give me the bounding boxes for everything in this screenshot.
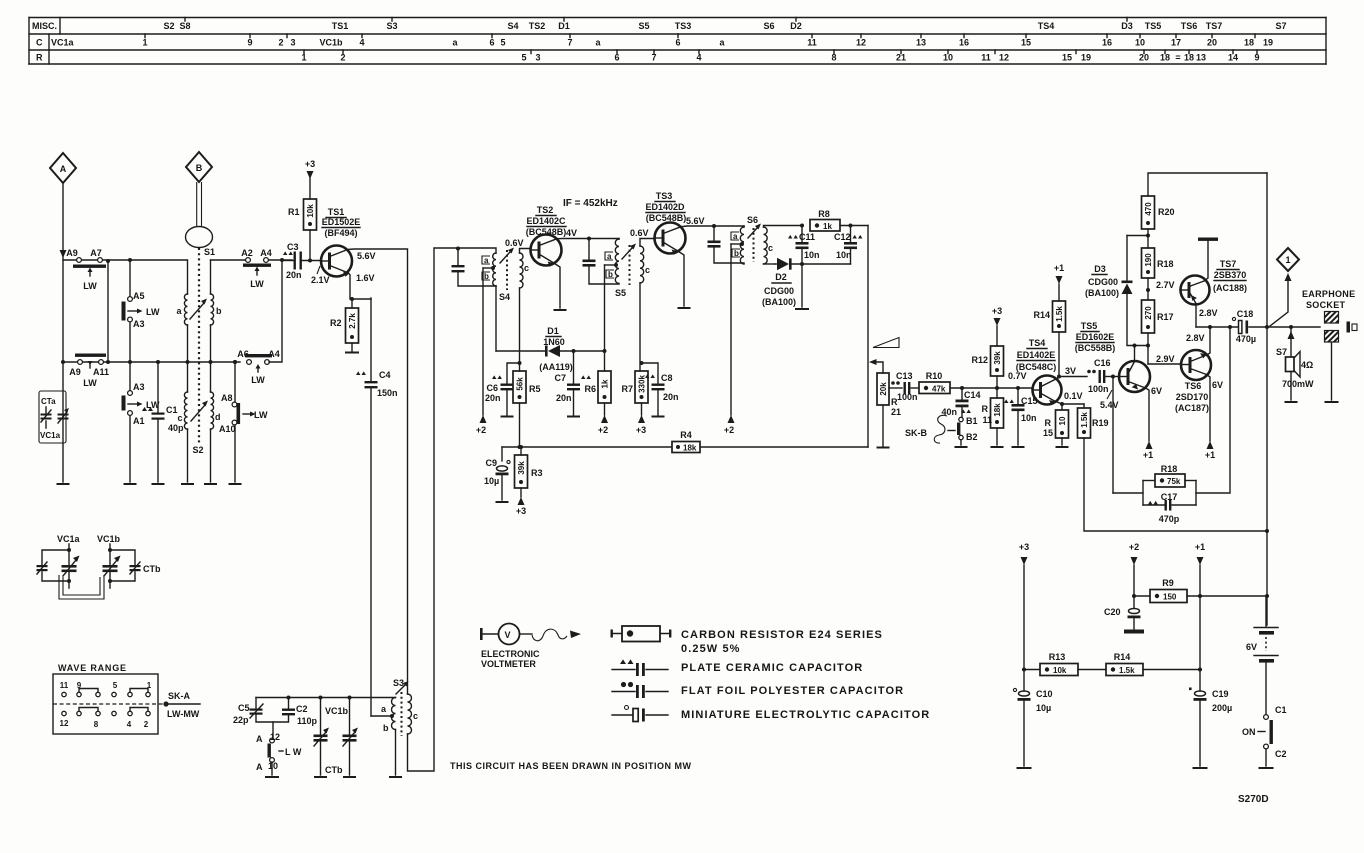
resistor R11 18k xyxy=(982,388,1004,447)
on/off switch C1/C2 xyxy=(1242,705,1287,768)
svg-text:A3: A3 xyxy=(133,382,145,392)
ferrite rod core (dotted) xyxy=(198,248,200,443)
svg-text:C2: C2 xyxy=(296,704,308,714)
node junction C3/A4 xyxy=(280,258,284,262)
svg-text:A7: A7 xyxy=(90,248,102,258)
svg-text:12: 12 xyxy=(999,53,1009,63)
+1 feed R14 xyxy=(1054,263,1064,301)
MIXER TS1 + OSC xyxy=(233,159,692,777)
svg-text:C19: C19 xyxy=(1212,689,1229,699)
S5 winding c xyxy=(640,246,644,283)
svg-text:TS6: TS6 xyxy=(1185,381,1202,391)
legend plate ceramic capacitor xyxy=(612,659,863,676)
S6 tuning arrow xyxy=(748,228,757,238)
svg-text:LW: LW xyxy=(254,410,268,420)
svg-text:B2: B2 xyxy=(966,432,978,442)
svg-text:a: a xyxy=(607,252,612,261)
ground under antenna A line xyxy=(58,483,69,485)
svg-text:21: 21 xyxy=(891,407,901,417)
svg-text:VOLTMETER: VOLTMETER xyxy=(481,659,536,669)
svg-text:2.8V: 2.8V xyxy=(1186,333,1205,343)
right spine wire xyxy=(1266,173,1268,625)
svg-text:15: 15 xyxy=(1043,428,1053,438)
svg-text:15: 15 xyxy=(1062,53,1072,63)
svg-text:270: 270 xyxy=(1144,306,1153,320)
node 1 diamond xyxy=(1270,248,1299,326)
svg-text:b: b xyxy=(484,272,489,281)
TS6 collector to +1 xyxy=(1205,375,1215,461)
svg-text:5.6V: 5.6V xyxy=(686,216,705,226)
TS5 base node feedback drop xyxy=(1111,375,1115,379)
svg-text:R18: R18 xyxy=(1157,259,1174,269)
svg-text:S7: S7 xyxy=(1275,21,1286,31)
TS5 emitter to +1 xyxy=(1143,388,1153,460)
svg-text:(BA100): (BA100) xyxy=(762,297,796,307)
svg-text:VC1b: VC1b xyxy=(325,706,349,716)
capacitor C15 10n xyxy=(1004,386,1038,447)
contacts top row xyxy=(62,689,150,697)
svg-text:R: R xyxy=(1045,418,1052,428)
svg-text:19: 19 xyxy=(1081,53,1091,63)
svg-text:c: c xyxy=(177,413,182,423)
svg-text:10k: 10k xyxy=(1053,666,1067,675)
capacitor C20 xyxy=(1104,607,1144,634)
svg-text:(AA119): (AA119) xyxy=(539,362,573,372)
svg-text:2SB370: 2SB370 xyxy=(1214,270,1247,280)
svg-text:6V: 6V xyxy=(1246,642,1257,652)
svg-text:ED1402E: ED1402E xyxy=(1017,350,1056,360)
emitter wire xyxy=(349,273,372,299)
svg-text:11: 11 xyxy=(982,415,992,425)
S6 winding ab xyxy=(743,226,745,227)
svg-text:CTb: CTb xyxy=(143,564,161,574)
svg-text:R19: R19 xyxy=(1092,418,1109,428)
S6 winding c xyxy=(764,227,768,264)
S4 core xyxy=(506,250,508,290)
svg-text:5: 5 xyxy=(113,681,118,690)
svg-text:2: 2 xyxy=(144,720,149,729)
coil b (MW) xyxy=(209,260,223,364)
resistor R10 47k xyxy=(919,371,950,394)
resistor R19 1.5k xyxy=(1078,404,1268,531)
battery 6V xyxy=(1246,596,1278,714)
wave range table xyxy=(53,663,200,734)
tuning arrow coils c/d xyxy=(191,405,205,421)
resistor R8 1k xyxy=(810,209,868,231)
svg-text:C14: C14 xyxy=(964,390,981,400)
TS7 collector to chassis bar xyxy=(1204,241,1208,281)
svg-text:A4: A4 xyxy=(268,349,280,359)
svg-text:470µ: 470µ xyxy=(1236,334,1256,344)
S4 tuning arrow xyxy=(500,252,510,263)
svg-text:FLAT FOIL POLYESTER CAPACITOR: FLAT FOIL POLYESTER CAPACITOR xyxy=(681,685,904,697)
capacitor C4 150n xyxy=(356,298,398,716)
svg-text:TS1: TS1 xyxy=(332,21,349,31)
svg-text:6V: 6V xyxy=(1212,380,1223,390)
svg-text:TS2: TS2 xyxy=(529,21,546,31)
svg-text:S1: S1 xyxy=(204,247,215,257)
svg-text:19: 19 xyxy=(1263,38,1273,48)
svg-text:+1: +1 xyxy=(1143,450,1153,460)
resistor R18 190 xyxy=(1142,248,1174,300)
svg-text:LW: LW xyxy=(83,378,97,388)
svg-text:S270D: S270D xyxy=(1238,794,1269,805)
svg-text:47k: 47k xyxy=(932,385,946,394)
svg-text:S5: S5 xyxy=(615,288,626,298)
svg-text:39k: 39k xyxy=(517,461,526,475)
svg-text:D1: D1 xyxy=(547,326,559,336)
ground under coil c xyxy=(182,483,193,485)
svg-text:+3: +3 xyxy=(1019,542,1029,552)
coil a (MW) xyxy=(176,260,189,364)
svg-text:R14: R14 xyxy=(1033,310,1050,320)
svg-text:C1: C1 xyxy=(1275,705,1287,715)
S6 resonant capacitor xyxy=(708,224,745,263)
svg-text:(BA100): (BA100) xyxy=(1085,288,1119,298)
svg-text:40p: 40p xyxy=(168,423,184,433)
switch A9/A7 xyxy=(66,248,106,291)
svg-text:C9: C9 xyxy=(485,458,497,468)
svg-text:15: 15 xyxy=(1021,38,1031,48)
svg-text:1: 1 xyxy=(142,38,147,48)
svg-text:a: a xyxy=(733,232,738,241)
voltage 2.1V xyxy=(317,266,320,274)
wire R8 node down to volume xyxy=(867,226,869,448)
svg-text:S6: S6 xyxy=(747,215,758,225)
svg-text:CDG00: CDG00 xyxy=(1088,277,1118,287)
TS6 emitter to output node xyxy=(1207,327,1211,355)
S3 tuning arrow xyxy=(396,685,405,694)
svg-text:D3: D3 xyxy=(1094,264,1106,274)
osc bus wire xyxy=(256,697,396,699)
resistor R13 10k xyxy=(1024,652,1106,676)
node B diamond xyxy=(186,152,212,182)
svg-text:+1: +1 xyxy=(1054,263,1064,273)
svg-text:S4: S4 xyxy=(499,292,510,302)
voltage 5.4V xyxy=(1107,390,1112,399)
base line to TS4 xyxy=(950,387,1033,389)
svg-text:R3: R3 xyxy=(531,468,543,478)
svg-text:470p: 470p xyxy=(1159,514,1180,524)
ground under C1 xyxy=(153,483,164,485)
svg-text:D2: D2 xyxy=(790,21,802,31)
svg-text:B: B xyxy=(196,163,203,173)
svg-text:10n: 10n xyxy=(1021,413,1037,423)
svg-text:TS7: TS7 xyxy=(1206,21,1223,31)
S5 winding ab xyxy=(618,238,620,241)
svg-text:20n: 20n xyxy=(663,392,679,402)
svg-text:+2: +2 xyxy=(724,425,734,435)
switch A5/A3 xyxy=(122,258,161,364)
svg-text:2.7k: 2.7k xyxy=(348,313,357,329)
svg-text:+3: +3 xyxy=(636,425,646,435)
node A diamond xyxy=(50,153,76,183)
svg-text:20n: 20n xyxy=(286,270,302,280)
svg-text:A10: A10 xyxy=(219,424,236,434)
variable capacitor VC1b xyxy=(314,696,349,778)
IF STAGES xyxy=(452,191,869,516)
transistor TS1 ED1502E (BF494) xyxy=(321,207,360,277)
diode D3 CDG00 (BA100) xyxy=(1085,236,1148,346)
svg-text:+2: +2 xyxy=(476,425,486,435)
svg-text:A: A xyxy=(60,164,67,174)
transistor TS7 2SB370 (AC188) xyxy=(1180,259,1247,305)
coil d (LW) xyxy=(211,362,221,482)
TS2 emitter to ground xyxy=(553,263,560,309)
svg-text:R: R xyxy=(36,53,43,63)
svg-text:c: c xyxy=(768,243,773,253)
output line with C18 xyxy=(1196,326,1238,328)
svg-text:A8: A8 xyxy=(221,393,233,403)
svg-text:LW: LW xyxy=(250,279,264,289)
+2 rail xyxy=(1129,542,1139,608)
svg-text:100n: 100n xyxy=(897,392,918,402)
feedback network R18/C17 xyxy=(1113,325,1232,524)
svg-text:(BC548C): (BC548C) xyxy=(1016,362,1057,372)
base line TS6 xyxy=(1148,363,1181,365)
svg-text:10µ: 10µ xyxy=(1036,703,1051,713)
svg-text:100n: 100n xyxy=(1088,384,1109,394)
transistor TS5 ED1602E (BC558B) xyxy=(1075,321,1150,392)
svg-text:TS1: TS1 xyxy=(328,207,345,217)
wiper arrow to R21 xyxy=(869,359,877,365)
TS3 emitter to ground xyxy=(677,251,684,307)
svg-text:C12: C12 xyxy=(834,232,851,242)
svg-text:S2: S2 xyxy=(163,21,174,31)
svg-text:R13: R13 xyxy=(1049,652,1066,662)
svg-text:ED1502E: ED1502E xyxy=(322,217,361,227)
TS4 emitter wires xyxy=(1055,401,1085,404)
IF transformer S6 xyxy=(731,215,800,264)
svg-text:TS6: TS6 xyxy=(1181,21,1198,31)
resistor R14 1.5k (supply) xyxy=(1106,652,1200,676)
arrow on antenna wire xyxy=(60,250,67,258)
table grid xyxy=(29,18,1326,65)
switch A9/A11 xyxy=(69,354,109,389)
wire top row y260 left xyxy=(63,259,187,261)
svg-text:R18: R18 xyxy=(1161,464,1178,474)
GANG + WAVE RANGE xyxy=(37,534,201,734)
svg-text:EARPHONE: EARPHONE xyxy=(1302,289,1355,299)
capacitor C6 20n xyxy=(485,361,522,417)
svg-text:3: 3 xyxy=(290,38,295,48)
svg-text:A5: A5 xyxy=(133,291,145,301)
svg-text:20: 20 xyxy=(1207,38,1217,48)
svg-text:TS3: TS3 xyxy=(656,191,673,201)
svg-text:56k: 56k xyxy=(516,377,525,391)
svg-text:R14: R14 xyxy=(1114,652,1131,662)
capacitor C11 10n xyxy=(788,224,820,310)
svg-text:C16: C16 xyxy=(1094,358,1111,368)
svg-text:R20: R20 xyxy=(1158,207,1175,217)
svg-text:6: 6 xyxy=(675,38,680,48)
resistor R4 18k xyxy=(502,430,868,453)
svg-text:1: 1 xyxy=(1285,255,1290,265)
svg-text:TS4: TS4 xyxy=(1038,21,1055,31)
R row entries xyxy=(301,53,1259,63)
svg-text:MISC.: MISC. xyxy=(32,21,57,31)
diode D2 CDG00 (BA100) xyxy=(762,258,851,307)
svg-text:R10: R10 xyxy=(926,371,943,381)
contact numbers bottom xyxy=(60,719,149,729)
svg-text:10n: 10n xyxy=(836,250,852,260)
gang capacitor VC1b section xyxy=(97,534,161,588)
svg-text:1.6V: 1.6V xyxy=(356,273,375,283)
+3 rail to R1 xyxy=(305,159,315,199)
transistor TS4 ED1402E (BC548C) xyxy=(1016,338,1062,405)
S3 winding a/b xyxy=(392,698,396,730)
svg-text:6V: 6V xyxy=(1151,386,1162,396)
capacitor C13 100n xyxy=(889,371,919,402)
svg-text:A11: A11 xyxy=(93,367,109,377)
osc transformer S3 xyxy=(371,248,458,777)
svg-text:+1: +1 xyxy=(1195,542,1205,552)
AUDIO DRIVER xyxy=(905,263,1267,531)
collector line to C16 xyxy=(1059,376,1087,378)
svg-text:R9: R9 xyxy=(1162,578,1174,588)
svg-text:L W: L W xyxy=(285,747,302,757)
capacitor C7 20n xyxy=(554,349,590,417)
IF transformer S5 xyxy=(605,239,655,372)
S4 winding ab xyxy=(493,253,496,286)
earphone switch SK-B contacts B1/B2 xyxy=(905,415,978,447)
svg-text:A2: A2 xyxy=(241,248,253,258)
svg-text:R2: R2 xyxy=(330,318,342,328)
svg-text:C3: C3 xyxy=(287,242,299,252)
svg-text:ON: ON xyxy=(1242,727,1256,737)
svg-text:4Ω: 4Ω xyxy=(1301,360,1313,370)
svg-text:R17: R17 xyxy=(1157,312,1174,322)
svg-text:C1: C1 xyxy=(166,405,178,415)
svg-text:+2: +2 xyxy=(598,425,608,435)
gang capacitor VC1a section xyxy=(37,534,81,588)
svg-text:VC1a: VC1a xyxy=(51,38,75,48)
resistor R15 10 xyxy=(1043,404,1069,447)
svg-text:TS2: TS2 xyxy=(537,205,554,215)
electronic voltmeter symbol xyxy=(480,624,581,670)
legend flat foil polyester capacitor xyxy=(612,682,904,698)
wire A7 to A11 xyxy=(107,261,109,362)
svg-text:R6: R6 xyxy=(584,384,596,394)
svg-text:ED1402C: ED1402C xyxy=(526,216,566,226)
MISC row entries xyxy=(163,21,1286,31)
speaker S7 700mW xyxy=(1276,325,1314,402)
C row ticks xyxy=(145,34,1255,38)
svg-text:R7: R7 xyxy=(621,384,633,394)
svg-text:R4: R4 xyxy=(680,430,692,440)
svg-text:c: c xyxy=(524,263,529,273)
svg-text:C6: C6 xyxy=(486,383,498,393)
capacitor C19 200u xyxy=(1189,688,1232,769)
svg-text:D3: D3 xyxy=(1121,21,1133,31)
telescopic antenna stem xyxy=(197,182,202,227)
svg-text:d: d xyxy=(215,412,221,422)
svg-text:7: 7 xyxy=(567,38,572,48)
capacitor C14 40n xyxy=(941,386,980,417)
S3 winding c xyxy=(408,694,412,734)
TS5 collector node xyxy=(1134,346,1136,362)
svg-text:A1: A1 xyxy=(133,416,145,426)
svg-text:2: 2 xyxy=(278,38,283,48)
capacitor C8 20n xyxy=(640,361,679,417)
svg-text:b: b xyxy=(734,249,739,258)
volume control wedge xyxy=(873,338,899,348)
svg-text:A3: A3 xyxy=(133,319,145,329)
svg-text:TS7: TS7 xyxy=(1220,259,1237,269)
svg-text:LW: LW xyxy=(146,307,160,317)
svg-text:IF = 452kHz: IF = 452kHz xyxy=(563,198,618,209)
S5 tuning arrow xyxy=(622,248,632,259)
resistor R9 150 xyxy=(1134,578,1266,603)
svg-text:A: A xyxy=(256,762,263,772)
svg-text:C2: C2 xyxy=(1275,749,1287,759)
transistor TS3 ED1402D (BC548B) xyxy=(645,191,686,255)
svg-text:R: R xyxy=(982,404,989,414)
svg-text:c: c xyxy=(645,265,650,275)
earphone socket xyxy=(1302,289,1357,402)
svg-text:S4: S4 xyxy=(507,21,518,31)
switch A3/A1 xyxy=(122,362,161,482)
resistor R12 39k xyxy=(971,346,1003,390)
svg-text:12: 12 xyxy=(60,719,69,728)
switch A8/A10 xyxy=(219,360,268,482)
svg-text:8: 8 xyxy=(94,720,99,729)
+2 feed S4 tap xyxy=(476,268,487,435)
LOCATION TABLE xyxy=(29,18,1326,65)
R row ticks xyxy=(304,50,1257,54)
svg-text:(AC187): (AC187) xyxy=(1175,403,1209,413)
ground under A3/A1 xyxy=(125,483,136,485)
svg-text:ELECTRONIC: ELECTRONIC xyxy=(481,649,540,659)
transistor TS6 2SD170 (AC187) xyxy=(1175,350,1211,413)
svg-text:3V: 3V xyxy=(1065,366,1076,376)
resistor R17 270 xyxy=(1142,300,1174,364)
S3 core xyxy=(401,692,403,736)
svg-text:S5: S5 xyxy=(638,21,649,31)
svg-text:CARBON RESISTOR E24 SERIES: CARBON RESISTOR E24 SERIES xyxy=(681,629,883,641)
svg-text:22p: 22p xyxy=(233,715,249,725)
svg-text:c: c xyxy=(413,711,418,721)
diode D1 1N60 (AA119) xyxy=(496,326,605,372)
svg-text:190: 190 xyxy=(1144,253,1153,267)
svg-text:CTb: CTb xyxy=(325,765,343,775)
svg-text:20n: 20n xyxy=(485,393,501,403)
svg-text:LW: LW xyxy=(251,375,265,385)
S4 winding c xyxy=(520,253,524,288)
S5 resonant capacitor xyxy=(583,237,620,285)
svg-text:A: A xyxy=(256,734,263,744)
tuning arrow coils a/b xyxy=(190,303,204,319)
svg-text:16: 16 xyxy=(959,38,969,48)
svg-text:TS5: TS5 xyxy=(1145,21,1162,31)
svg-text:(AC188): (AC188) xyxy=(1213,283,1247,293)
svg-text:CDG00: CDG00 xyxy=(764,286,794,296)
svg-text:C13: C13 xyxy=(896,371,913,381)
svg-text:10: 10 xyxy=(268,761,278,771)
svg-text:a: a xyxy=(484,256,489,265)
svg-text:SOCKET: SOCKET xyxy=(1306,300,1346,310)
svg-text:1.5k: 1.5k xyxy=(1119,666,1135,675)
svg-text:2.1V: 2.1V xyxy=(311,275,330,285)
svg-text:R12: R12 xyxy=(971,355,988,365)
svg-text:S3: S3 xyxy=(386,21,397,31)
+1 rail xyxy=(1195,542,1205,691)
svg-text:13: 13 xyxy=(1196,53,1206,63)
svg-text:10: 10 xyxy=(1135,38,1145,48)
wire bottom row y362 xyxy=(63,361,240,363)
TS2 collector wire xyxy=(557,238,619,240)
svg-text:5: 5 xyxy=(500,38,505,48)
